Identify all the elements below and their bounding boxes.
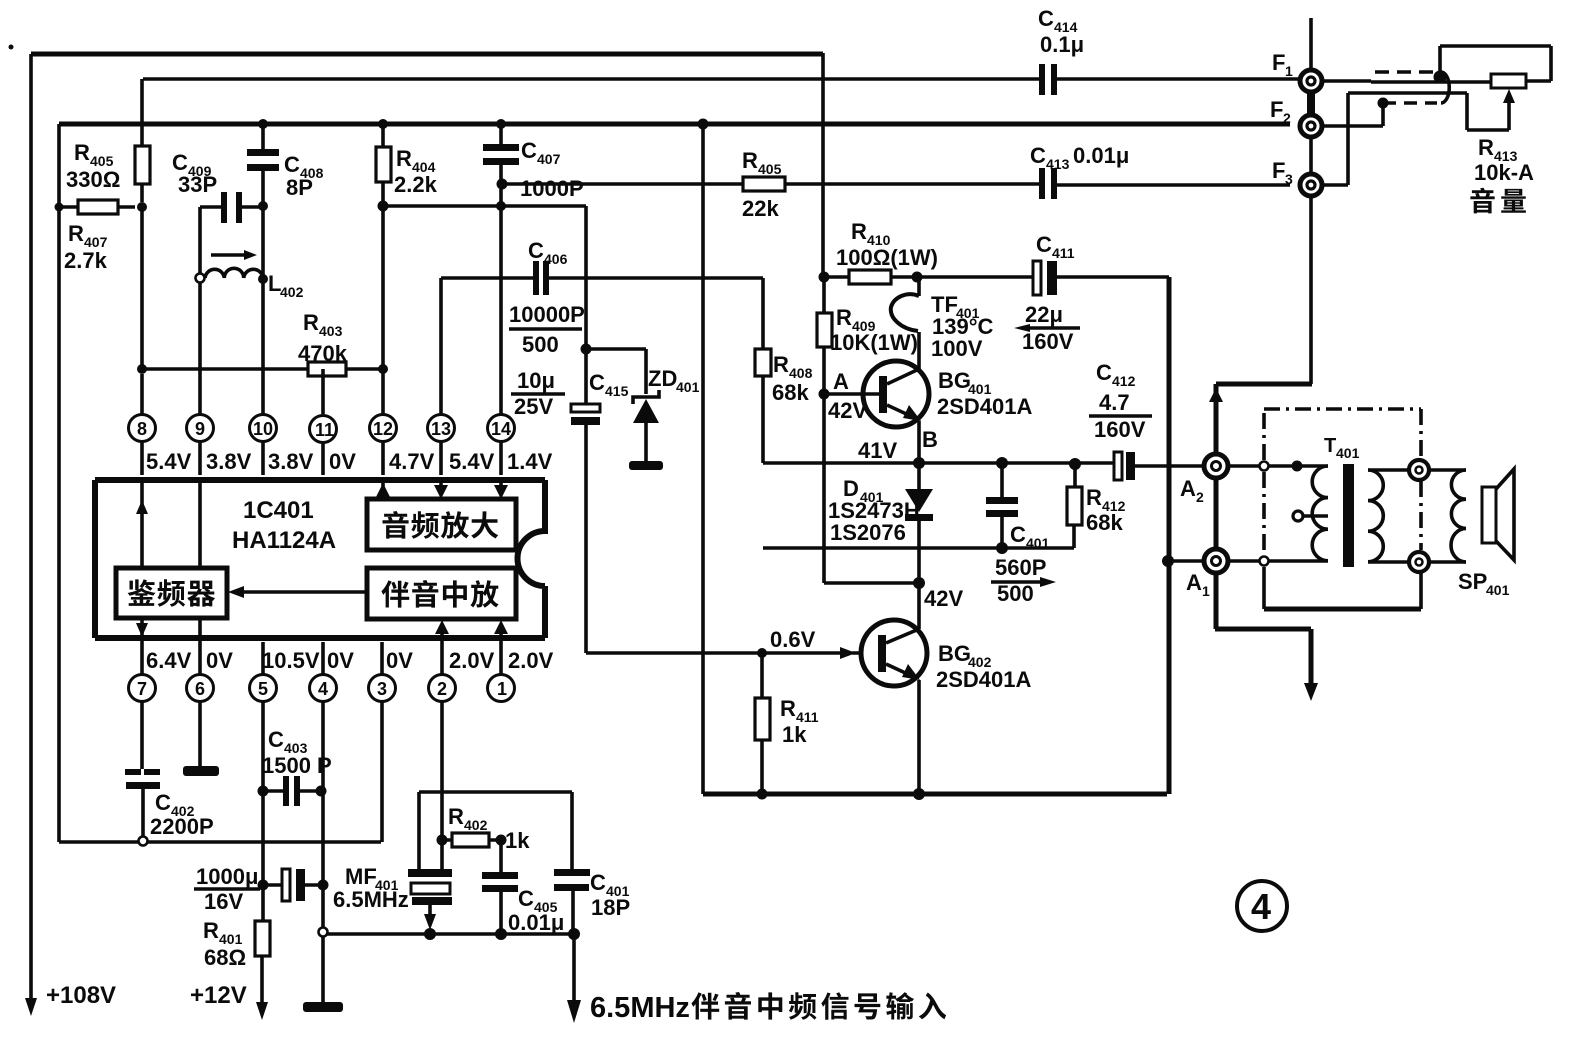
wire pot loop <box>1434 71 1447 84</box>
svg-text:2: 2 <box>1283 110 1291 126</box>
svg-text:100Ω(1W): 100Ω(1W) <box>836 245 938 270</box>
svg-text:C: C <box>589 370 605 395</box>
capacitor C411 22u/160V <box>1033 261 1041 295</box>
wire pin3 column to ground bus <box>380 702 384 842</box>
svg-text:0.1μ: 0.1μ <box>1040 32 1084 57</box>
svg-text:25V: 25V <box>514 394 553 419</box>
pin 4 <box>310 675 337 702</box>
pin 3 <box>369 675 396 702</box>
svg-text:B: B <box>922 427 938 452</box>
svg-text:10000P: 10000P <box>509 302 585 327</box>
svg-text:68k: 68k <box>1086 510 1123 535</box>
svg-text:407: 407 <box>537 151 561 167</box>
wire vertical x=586 (C415 column) <box>584 206 588 653</box>
svg-text:8: 8 <box>137 419 147 439</box>
svg-text:R: R <box>742 148 758 173</box>
svg-text:0V: 0V <box>386 648 413 673</box>
svg-text:C: C <box>521 138 537 163</box>
svg-text:T: T <box>1324 435 1336 457</box>
wire pin1 stub with up arrow <box>499 630 503 674</box>
wire vertical x=703 (output box left) <box>701 124 705 794</box>
svg-text:1.4V: 1.4V <box>507 449 553 474</box>
capacitor C402 2200P <box>142 702 143 836</box>
capacitor C409 33P <box>200 207 263 274</box>
wire pin8 column <box>140 211 144 414</box>
svg-text:415: 415 <box>605 383 629 399</box>
wire 6.5MHz input arrow <box>572 934 576 1000</box>
terminal A1 <box>1204 549 1228 573</box>
svg-text:C: C <box>1036 232 1052 257</box>
svg-text:10.5V: 10.5V <box>262 648 320 673</box>
wire 0.6V line <box>586 651 878 655</box>
wire pin13 column <box>439 278 443 414</box>
svg-text:405: 405 <box>758 161 782 177</box>
wire pin10 stub <box>261 442 265 674</box>
svg-text:412: 412 <box>1112 373 1136 389</box>
wire A1 line <box>1168 559 1264 563</box>
wire A2-A1 outer link <box>1215 477 1311 688</box>
wire lower line y=548 <box>763 546 1074 550</box>
svg-text:0V: 0V <box>327 648 354 673</box>
wire F1 to cable <box>1322 79 1371 83</box>
speaker SP401 <box>1429 468 1466 472</box>
wire F1 line <box>143 77 1301 81</box>
terminal F1 <box>1300 70 1322 92</box>
svg-text:402: 402 <box>464 817 488 833</box>
svg-text:3.8V: 3.8V <box>206 449 252 474</box>
wire A2 line into transformer <box>1228 464 1292 468</box>
svg-text:0.6V: 0.6V <box>770 627 816 652</box>
capacitor C407 1000P <box>496 119 506 129</box>
svg-text:0V: 0V <box>329 449 356 474</box>
node junction ZD branch <box>581 344 592 355</box>
svg-text:12: 12 <box>373 419 393 439</box>
svg-text:C: C <box>1010 522 1026 547</box>
svg-text:C: C <box>518 886 534 911</box>
node page ref circled 4 <box>1237 881 1287 931</box>
wire pin5 column <box>261 702 265 885</box>
svg-text:R: R <box>773 352 789 377</box>
svg-text:2.0V: 2.0V <box>508 648 554 673</box>
svg-text:401: 401 <box>1336 445 1360 461</box>
svg-text:F: F <box>1272 50 1285 75</box>
svg-text:11: 11 <box>315 420 334 440</box>
svg-text:18P: 18P <box>591 895 630 920</box>
terminal F2 <box>1300 115 1322 137</box>
svg-text:F: F <box>1270 97 1283 122</box>
node +108V arrow <box>25 998 37 1016</box>
wire pot wiper return <box>1441 93 1509 130</box>
svg-text:HA1124A: HA1124A <box>232 527 336 554</box>
svg-text:R: R <box>851 219 867 244</box>
svg-text:R: R <box>448 804 464 829</box>
pin 8 <box>129 415 156 442</box>
wire F3 / 22k line <box>502 184 1290 185</box>
svg-text:68k: 68k <box>772 380 809 405</box>
svg-text:6.5MHz: 6.5MHz <box>590 992 690 1024</box>
wire pin11 column <box>321 369 325 414</box>
svg-text:+108V: +108V <box>46 982 116 1009</box>
wire output box bottom <box>703 792 1167 797</box>
svg-text:C: C <box>284 152 300 177</box>
svg-text:R: R <box>74 140 90 165</box>
transformer T401 shield box <box>1264 407 1421 411</box>
svg-text:C: C <box>1096 360 1112 385</box>
svg-text:100V: 100V <box>931 336 983 361</box>
svg-text:8P: 8P <box>286 175 313 200</box>
svg-text:68Ω: 68Ω <box>204 945 246 970</box>
svg-text:A: A <box>833 369 849 394</box>
svg-text:2.2k: 2.2k <box>394 172 438 197</box>
pin 14 <box>488 415 515 442</box>
resistor R401 68ohm <box>262 885 263 1006</box>
pin 13 <box>428 415 455 442</box>
svg-text:1: 1 <box>1202 583 1210 599</box>
resistor R408 68k <box>761 278 765 463</box>
transistor BG401 2SD401A <box>863 361 929 427</box>
svg-text:7: 7 <box>137 679 147 699</box>
svg-text:500: 500 <box>522 332 559 357</box>
svg-text:4: 4 <box>318 679 328 699</box>
wire cable to pot <box>1441 80 1491 84</box>
cable shielded pair <box>1371 80 1441 84</box>
svg-text:+12V: +12V <box>190 982 247 1009</box>
svg-text:2SD401A: 2SD401A <box>937 394 1033 419</box>
resistor R407 2.7k <box>55 203 64 212</box>
capacitor C401 560P/500 <box>996 457 1008 469</box>
terminal F3 <box>1300 174 1322 196</box>
svg-text:160V: 160V <box>1094 417 1146 442</box>
terminal A2 <box>1204 454 1228 478</box>
wire F vertical line <box>1309 18 1313 384</box>
svg-text:C: C <box>268 727 284 752</box>
capacitor C404 1000u/16V <box>258 880 269 891</box>
svg-text:0V: 0V <box>206 648 233 673</box>
svg-text:6.4V: 6.4V <box>146 648 192 673</box>
wire F3 riser to cable <box>1322 93 1348 185</box>
transformer core <box>1343 464 1354 567</box>
svg-text:A: A <box>1180 476 1196 501</box>
svg-text:R: R <box>303 310 319 335</box>
ground pin6 <box>198 702 202 766</box>
svg-text:SP: SP <box>1458 569 1487 594</box>
wire outer border left (+108V rail) <box>29 54 33 1002</box>
wire pin9/pin6 column through IC <box>198 442 202 674</box>
wire input bus y=934 <box>327 932 574 936</box>
svg-text:MF: MF <box>345 864 377 889</box>
svg-text:R: R <box>203 918 219 943</box>
svg-text:2: 2 <box>437 679 447 699</box>
svg-text:2.7k: 2.7k <box>64 248 108 273</box>
svg-text:0.01μ: 0.01μ <box>1073 143 1129 168</box>
transistor BG402 2SD401A <box>861 620 927 686</box>
svg-text:22k: 22k <box>742 196 779 221</box>
capacitor C401 18P <box>572 792 573 934</box>
wire pin12 stub with up arrow <box>382 442 383 674</box>
svg-text:10k-A: 10k-A <box>1474 160 1534 185</box>
svg-text:411: 411 <box>1052 245 1075 261</box>
node open circle A1 on box edge <box>1260 557 1269 566</box>
wire F2 riser to cable <box>1322 104 1383 126</box>
node open circle A2 on box edge <box>1260 462 1269 471</box>
svg-text:42V: 42V <box>924 586 963 611</box>
capacitor C415 10u/25V <box>571 404 600 412</box>
svg-text:C: C <box>1030 143 1046 168</box>
svg-text:2SD401A: 2SD401A <box>936 667 1032 692</box>
pin 12 <box>370 415 397 442</box>
svg-text:13: 13 <box>431 419 451 439</box>
resistor R405 22k <box>743 177 785 191</box>
capacitor C406 10000P/500 <box>441 276 763 280</box>
block discriminator 鉴频器 <box>116 568 227 618</box>
wire pin2 column <box>440 702 444 869</box>
svg-text:6: 6 <box>195 679 205 699</box>
node open junction C402 bottom <box>139 837 148 846</box>
wire ground bus y=842 <box>59 840 381 844</box>
svg-text:4.7V: 4.7V <box>389 449 435 474</box>
svg-text:BG: BG <box>938 641 971 666</box>
svg-text:10μ: 10μ <box>517 368 555 393</box>
wire R402/C401 box top line <box>419 790 572 794</box>
wire inner left vertical <box>57 124 61 842</box>
wire 41V bus <box>763 461 1114 465</box>
wire F2 bus y=124 <box>59 122 1290 127</box>
pin 9 <box>187 415 214 442</box>
wire pin12 column <box>381 206 385 414</box>
wire pin13 stub with down arrow <box>439 442 443 490</box>
svg-text:R: R <box>68 221 84 246</box>
potentiometer R413 10k-A <box>1491 74 1526 88</box>
diode D401 <box>917 463 921 489</box>
wire right vertical x=1169 <box>1167 277 1172 794</box>
svg-text:5: 5 <box>258 679 268 699</box>
svg-text:R: R <box>1478 135 1494 160</box>
wire pin11 stub <box>321 443 325 674</box>
svg-text:5.4V: 5.4V <box>449 449 495 474</box>
svg-text:C: C <box>155 790 171 815</box>
wire arrow sound-IF to discriminator <box>238 590 367 594</box>
pin 10 <box>250 415 277 442</box>
svg-text:14: 14 <box>491 419 511 439</box>
terminal T401 secondary bottom <box>1409 552 1429 572</box>
svg-text:A: A <box>1186 570 1202 595</box>
zener diode ZD401 <box>586 349 646 394</box>
wire pin2 stub with up arrow <box>440 630 444 674</box>
ceramic filter MF401 6.5MHz <box>408 869 452 877</box>
svg-text:ZD: ZD <box>648 366 677 391</box>
svg-text:2200P: 2200P <box>150 814 214 839</box>
transformer secondary winding <box>1368 470 1383 562</box>
wire pin9/pin10 columns <box>200 282 263 414</box>
wire R404 node line to x586 <box>383 204 586 208</box>
pin 5 <box>250 675 277 702</box>
svg-text:1S2076: 1S2076 <box>830 520 906 545</box>
pin 1 <box>488 675 515 702</box>
svg-text:9: 9 <box>195 419 205 439</box>
node scan speck <box>9 45 14 50</box>
svg-text:0.01μ: 0.01μ <box>508 910 564 935</box>
svg-text:22μ: 22μ <box>1025 302 1063 327</box>
node primary top terminal <box>1292 461 1303 472</box>
svg-text:R: R <box>396 146 412 171</box>
node A 42V <box>819 389 830 400</box>
svg-text:560P: 560P <box>995 555 1046 580</box>
resistor R405 330ohm (vertical) <box>140 79 144 202</box>
svg-text:1k: 1k <box>782 722 807 747</box>
wire pin14 stub with down arrow <box>499 442 503 490</box>
svg-text:41V: 41V <box>858 438 897 463</box>
svg-text:406: 406 <box>544 251 568 267</box>
resistor R402 1k <box>437 835 448 846</box>
wire x=824 column <box>821 53 825 277</box>
block audio-amp 音频放大 <box>367 499 516 550</box>
resistor R404 2.2k <box>378 119 388 129</box>
wire box left edge <box>417 792 421 869</box>
svg-text:1: 1 <box>497 679 507 699</box>
svg-text:F: F <box>1272 158 1285 183</box>
svg-text:C: C <box>528 238 544 263</box>
resistor R409 10k(1W) <box>822 277 826 394</box>
wire pin8 into IC with up arrow <box>140 442 144 568</box>
resistor R410 100ohm(1W) <box>824 275 1033 279</box>
inductor L402 <box>261 210 265 275</box>
svg-text:401: 401 <box>1486 582 1510 598</box>
wire A column down to 42V line <box>824 394 919 583</box>
pin 2 <box>429 675 456 702</box>
svg-text:2: 2 <box>1196 489 1204 505</box>
svg-text:5.4V: 5.4V <box>146 449 192 474</box>
resistor R411 1k <box>757 648 767 658</box>
svg-text:3.8V: 3.8V <box>268 449 314 474</box>
svg-text:413: 413 <box>1046 156 1070 172</box>
capacitor C405 0.01u <box>499 840 503 934</box>
wire pin4 to input bus, open circle <box>321 885 325 1002</box>
svg-text:160V: 160V <box>1022 329 1074 354</box>
transformer primary winding <box>1297 464 1328 468</box>
svg-text:C: C <box>1038 6 1054 31</box>
node junction dots input bus <box>424 928 436 940</box>
pin 11 <box>310 416 337 443</box>
svg-text:408: 408 <box>789 365 813 381</box>
svg-text:R: R <box>1086 485 1102 510</box>
block sound-IF 伴音中放 <box>367 568 516 619</box>
pin 6 <box>187 675 214 702</box>
IC U401 HA1124A outline <box>95 480 545 638</box>
wire pin14 column <box>499 189 503 414</box>
svg-text:330Ω: 330Ω <box>66 167 120 192</box>
svg-text:10: 10 <box>253 419 273 439</box>
svg-text:3: 3 <box>377 679 387 699</box>
svg-text:10K(1W): 10K(1W) <box>830 330 918 355</box>
svg-text:403: 403 <box>319 323 343 339</box>
svg-text:3: 3 <box>1285 171 1293 187</box>
wire pin4 column <box>321 702 325 885</box>
resistor R403 470k <box>137 364 147 374</box>
node primary tap open circle <box>1293 511 1303 521</box>
capacitor C413 0.01u <box>1039 168 1045 199</box>
terminal T401 secondary top <box>1409 460 1429 480</box>
capacitor C412 4.7/160V <box>1114 452 1122 480</box>
capacitor C403 1500P <box>258 786 269 797</box>
svg-text:6.5MHz: 6.5MHz <box>333 887 409 912</box>
svg-text:C: C <box>590 870 606 895</box>
capacitor C408 8P <box>258 119 268 129</box>
svg-text:1000μ: 1000μ <box>196 864 258 889</box>
capacitor C414 0.1u <box>1039 64 1045 95</box>
wire pin7 below discriminator with down arrow <box>140 618 144 674</box>
svg-text:500: 500 <box>997 581 1034 606</box>
svg-text:1000P: 1000P <box>520 176 584 201</box>
svg-text:R: R <box>836 305 852 330</box>
wire outer border top <box>31 52 823 57</box>
svg-text:BG: BG <box>938 368 971 393</box>
svg-text:16V: 16V <box>204 889 243 914</box>
svg-text:401: 401 <box>676 379 700 395</box>
thermal fuse TF401 <box>917 277 921 296</box>
svg-text:33P: 33P <box>178 172 217 197</box>
svg-text:2.0V: 2.0V <box>449 648 495 673</box>
pin 7 <box>129 675 156 702</box>
svg-text:R: R <box>780 696 796 721</box>
svg-text:1: 1 <box>1285 63 1293 79</box>
ground pin4 <box>303 1002 343 1012</box>
svg-text:4: 4 <box>1251 886 1271 927</box>
svg-text:1k: 1k <box>505 828 530 853</box>
svg-text:1C401: 1C401 <box>243 497 314 524</box>
svg-text:4.7: 4.7 <box>1099 390 1130 415</box>
svg-text:470k: 470k <box>298 341 348 366</box>
resistor R412 68k <box>1069 458 1081 470</box>
wire F line to A2 <box>1216 384 1312 455</box>
svg-text:402: 402 <box>280 284 304 300</box>
